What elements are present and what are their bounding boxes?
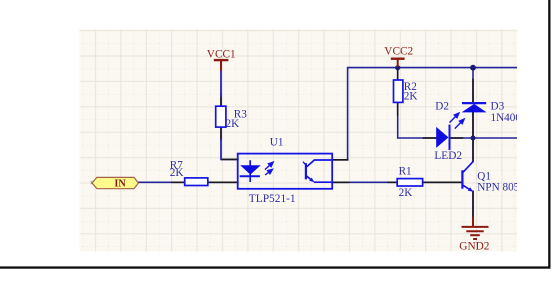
svg-text:GND2: GND2 <box>459 241 489 253</box>
svg-text:2K: 2K <box>399 187 413 199</box>
svg-text:2K: 2K <box>226 118 240 130</box>
svg-text:R1: R1 <box>399 166 412 178</box>
svg-text:2K: 2K <box>404 91 418 103</box>
svg-text:TLP521-1: TLP521-1 <box>249 193 296 205</box>
svg-text:2K: 2K <box>170 167 184 179</box>
svg-text:VCC2: VCC2 <box>384 45 413 57</box>
svg-text:IN: IN <box>114 179 126 190</box>
svg-text:D2: D2 <box>435 100 449 112</box>
svg-text:VCC1: VCC1 <box>207 48 236 60</box>
svg-text:U1: U1 <box>270 136 284 148</box>
svg-text:LED2: LED2 <box>434 150 462 162</box>
